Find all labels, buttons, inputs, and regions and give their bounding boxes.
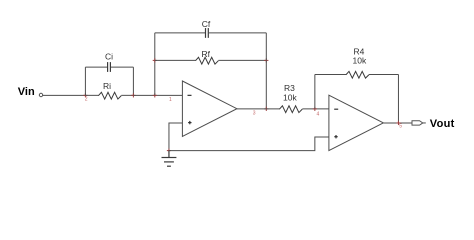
node 2 junction <box>83 93 87 97</box>
svg-text:10k: 10k <box>283 93 297 103</box>
capacitor Ci branch: right vertical wire <box>132 67 134 95</box>
feedback loop left vertical wire <box>154 33 156 96</box>
svg-text:Vout: Vout <box>430 118 455 130</box>
svg-text:Cf: Cf <box>202 19 211 29</box>
resistor Rf lead left <box>155 59 196 61</box>
svg-text:Ci: Ci <box>105 52 113 62</box>
node 1 junction <box>153 93 157 97</box>
capacitor Cf plates <box>206 28 209 38</box>
svg-text:Vin: Vin <box>18 86 35 98</box>
svg-text:2: 2 <box>85 97 88 103</box>
resistor R3 zigzag <box>279 106 302 113</box>
junction feedback to output wire <box>264 107 268 111</box>
svg-text:1: 1 <box>169 97 172 103</box>
svg-text:R3: R3 <box>284 83 295 93</box>
capacitor Ci branch: left vertical wire <box>84 67 86 95</box>
op-amp U2 <box>329 95 384 150</box>
resistor Ri lead left <box>85 94 98 96</box>
junction marker right of Ri <box>131 93 135 97</box>
resistor R4 lead right <box>369 73 399 75</box>
bottom wire ground to op-amp 2 non-inverting input <box>169 137 329 151</box>
capacitor Ci lead right <box>111 66 134 68</box>
resistor R4 lead left <box>315 73 346 75</box>
ground junction <box>167 149 171 153</box>
svg-text:10k: 10k <box>353 56 367 66</box>
resistor R4 zigzag <box>346 71 369 78</box>
resistor R4 branch right vertical wire <box>397 74 399 123</box>
resistor R4 branch left vertical wire <box>314 74 316 108</box>
feedback loop right vertical wire <box>265 33 267 109</box>
wire node2-side to op-amp 1 inverting input <box>133 94 182 96</box>
svg-text:Rf: Rf <box>202 49 211 59</box>
junction Rf right <box>264 58 268 62</box>
op-amp U1 inverting pin mark <box>188 94 192 96</box>
input terminal circle <box>39 93 42 96</box>
capacitor Cf lead left <box>155 32 205 34</box>
capacitor Cf lead right <box>209 32 267 34</box>
wire R3 to op-amp 2 inverting input <box>302 108 329 110</box>
op-amp U2 output wire <box>383 122 412 124</box>
node 4 junction <box>313 107 317 111</box>
resistor Ri lead right <box>121 94 133 96</box>
resistor Rf zigzag <box>196 57 219 64</box>
output port arrow <box>412 121 423 125</box>
op-amp U1 <box>182 81 237 136</box>
node 5 junction <box>396 121 400 125</box>
capacitor Ci lead left <box>85 66 107 68</box>
ground symbol <box>162 151 177 167</box>
svg-text:5: 5 <box>399 124 402 130</box>
svg-text:4: 4 <box>317 111 320 117</box>
capacitor Ci plates <box>108 62 111 72</box>
resistor Ri zigzag <box>98 92 121 99</box>
resistor Rf lead right <box>218 59 266 61</box>
junction Rf left <box>153 58 157 62</box>
svg-text:Ri: Ri <box>103 81 111 91</box>
op-amp U2 non-inverting pin mark <box>334 135 337 138</box>
wire Vin to node 2 <box>43 94 86 96</box>
op-amp U1 non-inverting pin mark <box>188 121 191 124</box>
op-amp U1 output wire <box>237 108 280 110</box>
output port stub <box>423 122 426 124</box>
non-inverting input wire <box>169 123 182 151</box>
svg-text:3: 3 <box>253 110 256 116</box>
op-amp U2 inverting pin mark <box>334 108 338 110</box>
